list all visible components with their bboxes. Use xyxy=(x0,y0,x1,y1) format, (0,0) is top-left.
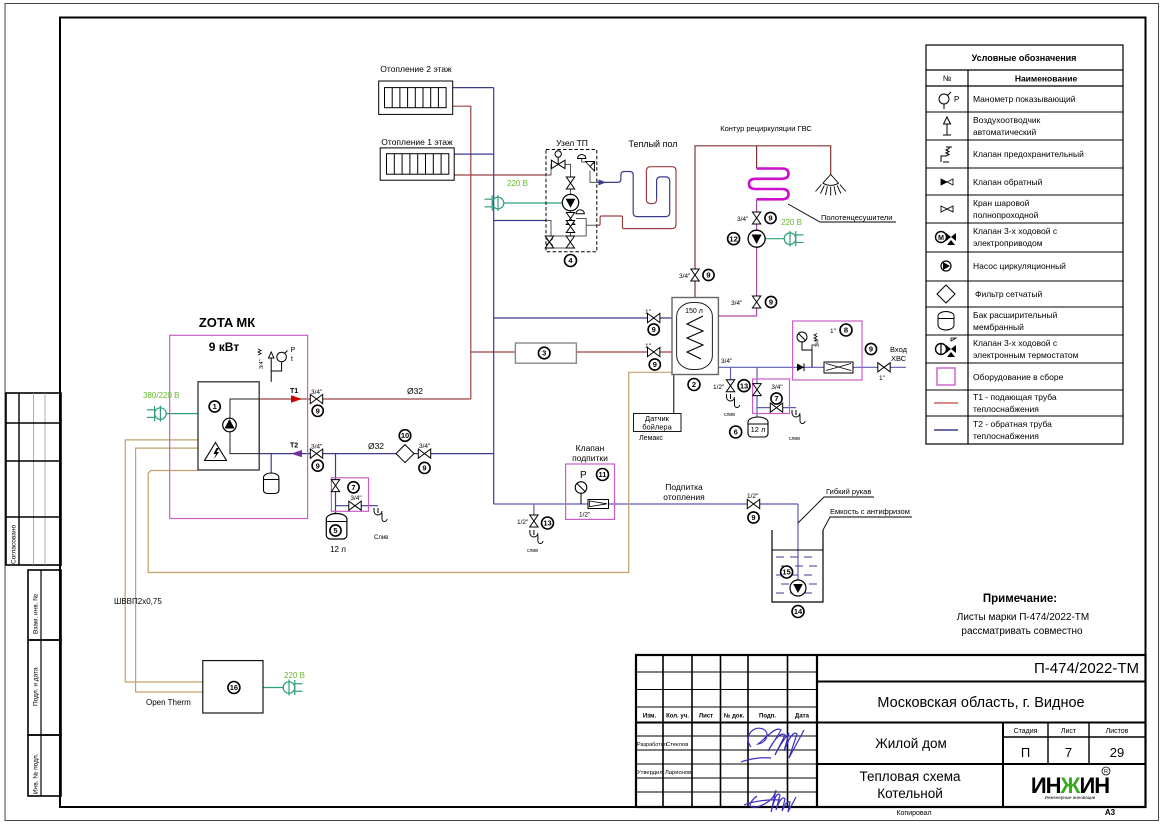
safety valve 3/4 b xyxy=(770,403,782,412)
wire podpitka make-up line xyxy=(494,503,798,505)
safety group 7 near boiler xyxy=(331,478,388,541)
3way valve below pump xyxy=(566,213,574,225)
svg-text:ZOTA МК: ZOTA МК xyxy=(199,315,255,330)
svg-text:15: 15 xyxy=(782,568,790,577)
svg-text:Воздухоотводчик: Воздухоотводчик xyxy=(973,115,1041,125)
svg-text:бойлера: бойлера xyxy=(642,423,672,432)
svg-text:Ø32: Ø32 xyxy=(407,386,423,396)
svg-text:Клапан: Клапан xyxy=(576,443,605,453)
svg-text:Подпитка: Подпитка xyxy=(665,482,703,492)
svg-text:14: 14 xyxy=(794,607,803,616)
towel rail label xyxy=(788,204,896,222)
inlet valve 9 xyxy=(865,343,876,354)
svg-text:Инженерные инновации: Инженерные инновации xyxy=(1045,795,1096,800)
svg-text:№ док.: № док. xyxy=(724,713,745,720)
svg-text:2: 2 xyxy=(692,380,696,389)
svg-text:мембранный: мембранный xyxy=(973,322,1024,332)
svg-text:Ø32: Ø32 xyxy=(368,441,384,451)
svg-text:Т2: Т2 xyxy=(290,443,298,450)
svg-text:автоматический: автоматический xyxy=(973,127,1036,137)
svg-text:Ларионов: Ларионов xyxy=(665,770,691,776)
valve in safety group 7b xyxy=(753,384,761,396)
svg-text:12 л: 12 л xyxy=(330,545,346,554)
svg-text:Кол. уч.: Кол. уч. xyxy=(666,714,689,720)
legend table Условные обозначения xyxy=(926,45,1123,444)
svg-text:П: П xyxy=(1021,745,1030,760)
svg-text:ХВС: ХВС xyxy=(891,354,907,363)
wire T1 boiler supply horizontal xyxy=(259,398,471,400)
svg-text:отопления: отопления xyxy=(663,492,705,502)
wire safety group2 branch xyxy=(756,367,758,417)
left stamp: Согласовано block xyxy=(6,393,61,565)
svg-text:6: 6 xyxy=(734,428,738,437)
legend sym: бак расширительный xyxy=(938,312,954,331)
svg-text:Изм.: Изм. xyxy=(643,714,657,720)
legend sym: манометр xyxy=(939,92,951,109)
svg-text:3/4": 3/4" xyxy=(311,444,323,451)
safety valve 3/4 xyxy=(349,501,361,510)
svg-text:Клапан 3-х ходовой с: Клапан 3-х ходовой с xyxy=(973,226,1058,236)
svg-text:Бак расширительный: Бак расширительный xyxy=(973,310,1058,320)
boiler inner unit xyxy=(198,382,259,470)
svg-text:Вход: Вход xyxy=(890,345,908,354)
flexible hose label xyxy=(798,497,874,523)
svg-text:Подп.: Подп. xyxy=(759,714,776,720)
svg-text:Клапан предохранительный: Клапан предохранительный xyxy=(973,149,1084,159)
svg-text:7: 7 xyxy=(774,394,778,403)
svg-text:Листов: Листов xyxy=(1106,728,1129,735)
pump 15 in tank xyxy=(790,580,806,596)
svg-text:1": 1" xyxy=(830,328,837,335)
svg-text:11: 11 xyxy=(599,470,607,479)
svg-text:Инв. № подл.: Инв. № подл. xyxy=(33,753,40,794)
wire power boiler xyxy=(166,413,198,415)
drain valve 13b xyxy=(530,515,538,527)
svg-text:1: 1 xyxy=(213,402,217,411)
wire power OpenTherm xyxy=(263,687,283,689)
wire floor coil blue xyxy=(597,172,670,217)
svg-text:220 В: 220 В xyxy=(284,671,305,680)
indirect tank 150l xyxy=(672,298,718,391)
wire radiator1 return xyxy=(454,153,493,155)
svg-text:9: 9 xyxy=(316,461,320,470)
svg-text:слив: слив xyxy=(724,412,735,418)
svg-text:5: 5 xyxy=(333,526,337,535)
wire TP unit return xyxy=(494,220,546,222)
svg-text:Лист: Лист xyxy=(699,714,713,720)
svg-text:9: 9 xyxy=(751,513,755,522)
svg-text:Теплый пол: Теплый пол xyxy=(628,139,677,149)
svg-text:слив: слив xyxy=(527,548,538,554)
svg-text:7: 7 xyxy=(351,483,355,492)
legend sym: кран шаровой xyxy=(941,206,953,212)
INZHIN logo xyxy=(1031,767,1110,800)
svg-text:9: 9 xyxy=(653,360,657,369)
wire T1 riser vertical xyxy=(453,106,471,399)
svg-text:Лемакс: Лемакс xyxy=(639,435,663,442)
manometer xyxy=(797,332,807,342)
wire radiator2 return xyxy=(453,87,494,89)
svg-text:Дата: Дата xyxy=(795,714,810,720)
svg-text:9: 9 xyxy=(768,214,772,223)
svg-text:Оборудование в сборе: Оборудование в сборе xyxy=(973,372,1064,382)
svg-text:рассматривать совместно: рассматривать совместно xyxy=(961,626,1083,637)
expansion tank 12l boiler xyxy=(326,514,347,555)
boiler sensor label xyxy=(634,414,682,443)
svg-text:12: 12 xyxy=(729,234,737,243)
svg-text:Тепловая схема: Тепловая схема xyxy=(859,769,961,784)
svg-text:Т2 - обратная труба: Т2 - обратная труба xyxy=(973,419,1052,429)
svg-text:Разработал: Разработал xyxy=(637,742,667,748)
legend sym: клапан 3-х ходовой с электроприводом xyxy=(936,232,957,246)
svg-text:3/4": 3/4" xyxy=(815,338,821,347)
svg-text:9 кВт: 9 кВт xyxy=(209,340,240,354)
svg-text:3/4": 3/4" xyxy=(259,359,265,369)
svg-text:Утвердил: Утвердил xyxy=(637,770,663,776)
antifreeze tank xyxy=(772,530,823,618)
node 7b label xyxy=(771,393,782,404)
boiler ZOTA MK assembly box xyxy=(170,315,308,519)
svg-text:Подл. и дата: Подл. и дата xyxy=(33,667,40,706)
svg-text:3/4": 3/4" xyxy=(771,384,783,391)
svg-text:полнопроходной: полнопроходной xyxy=(973,210,1039,220)
svg-text:13: 13 xyxy=(740,381,748,390)
svg-text:3/4": 3/4" xyxy=(419,443,431,450)
svg-text:Р: Р xyxy=(954,95,959,104)
svg-text:1/2": 1/2" xyxy=(713,384,725,391)
node 15 label xyxy=(781,566,793,578)
left table grid xyxy=(636,671,817,673)
svg-text:Р: Р xyxy=(580,470,587,481)
svg-text:220 В: 220 В xyxy=(507,179,528,188)
wire safety group1 drain out xyxy=(336,505,379,507)
svg-text:Согласовано: Согласовано xyxy=(11,525,18,564)
svg-text:9: 9 xyxy=(316,407,320,416)
svg-text:подпитки: подпитки xyxy=(572,453,608,463)
svg-text:Узел ТП: Узел ТП xyxy=(556,138,588,148)
svg-text:Т1 - подающая труба: Т1 - подающая труба xyxy=(973,392,1057,402)
svg-text:R: R xyxy=(1104,769,1108,775)
svg-text:Гибкий рукав: Гибкий рукав xyxy=(826,487,871,496)
svg-text:3/4": 3/4" xyxy=(721,358,733,365)
wire HVS cold water main xyxy=(718,366,906,368)
svg-text:Московская область, г. Видное: Московская область, г. Видное xyxy=(877,695,1084,711)
corner valve top right xyxy=(586,162,595,172)
recirc pump 12 xyxy=(728,233,740,245)
svg-text:3/4": 3/4" xyxy=(679,273,691,280)
thermo head xyxy=(576,210,584,214)
legend sym: фильтр xyxy=(937,285,955,303)
check valve xyxy=(797,364,804,372)
legend sym: Т1 line xyxy=(934,402,958,404)
svg-text:P: P xyxy=(291,347,296,354)
svg-text:электроприводом: электроприводом xyxy=(973,238,1043,248)
svg-text:Контур рециркуляции ГВС: Контур рециркуляции ГВС xyxy=(720,124,812,133)
svg-text:3: 3 xyxy=(542,349,546,358)
legend sym: Т2 line xyxy=(934,429,958,431)
wire radiator1 supply / TP unit feed xyxy=(454,174,546,176)
svg-text:Стеклов: Стеклов xyxy=(666,742,688,748)
wire tank cold feed upper xyxy=(494,317,672,319)
svg-text:теплоснабжения: теплоснабжения xyxy=(973,404,1039,414)
wire OpenTherm cable B xyxy=(136,448,203,692)
svg-text:1/2": 1/2" xyxy=(517,519,529,526)
svg-text:Емкость с антифризом: Емкость с антифризом xyxy=(830,507,910,516)
svg-text:Манометр показывающий: Манометр показывающий xyxy=(973,94,1076,104)
svg-text:А3: А3 xyxy=(1105,808,1116,817)
wire power TP pump xyxy=(504,202,562,204)
wire boiler sensor cable xyxy=(148,372,674,572)
svg-text:Копировал: Копировал xyxy=(896,810,931,817)
right part xyxy=(817,681,1146,683)
wire indirect tank supply branch xyxy=(471,351,516,353)
svg-text:Примечание:: Примечание: xyxy=(983,593,1057,605)
pressure reducer xyxy=(824,362,853,373)
svg-text:Взам. инв. №: Взам. инв. № xyxy=(33,594,40,634)
wire T2 boiler return xyxy=(259,453,494,455)
legend sym: насос xyxy=(941,261,951,271)
arrow into floor coil xyxy=(599,179,607,185)
svg-text:Условные обозначения: Условные обозначения xyxy=(972,53,1077,63)
valve on riser xyxy=(566,177,574,189)
wire sensor drop black xyxy=(673,372,675,413)
make-up valve group 11 xyxy=(566,443,615,519)
svg-text:Отопление 2 этаж: Отопление 2 этаж xyxy=(380,64,452,74)
svg-text:1/2": 1/2" xyxy=(579,512,591,519)
legend sym: клапан предохранительный xyxy=(941,147,952,163)
3-way valve with motor top-left xyxy=(551,160,565,168)
legend sym: клапан 3-х ходовой с термостатом xyxy=(936,338,957,357)
svg-text:13: 13 xyxy=(543,519,551,528)
wire podpitka into antifreeze tank xyxy=(797,504,799,581)
air cap top right xyxy=(578,154,586,158)
svg-text:8: 8 xyxy=(844,326,848,335)
radiator floor1 xyxy=(380,137,454,180)
svg-text:Т1: Т1 xyxy=(290,388,298,395)
mini safety valve xyxy=(812,334,817,351)
drain symbol слив b xyxy=(792,410,805,424)
pump inside boiler xyxy=(223,418,237,432)
antifreeze label xyxy=(823,517,912,530)
svg-text:9: 9 xyxy=(422,464,426,473)
OpenTherm controller 16 xyxy=(114,597,305,713)
svg-text:380/220 В: 380/220 В xyxy=(143,391,179,400)
svg-text:ШВВП2х0,75: ШВВП2х0,75 xyxy=(114,597,162,606)
svg-text:№: № xyxy=(943,74,952,83)
svg-text:Наименование: Наименование xyxy=(1015,74,1078,84)
svg-text:29: 29 xyxy=(1110,745,1124,760)
svg-text:Отопление 1 этаж: Отопление 1 этаж xyxy=(381,137,453,147)
signature xyxy=(741,728,804,762)
left stamp: Инв. № подл. xyxy=(28,735,61,796)
svg-text:1/2": 1/2" xyxy=(747,493,759,500)
expansion vessel under boiler xyxy=(270,454,272,474)
svg-text:Клапан 3-х ходовой с: Клапан 3-х ходовой с xyxy=(973,338,1058,348)
svg-text:Полотенцесушители: Полотенцесушители xyxy=(821,213,892,222)
svg-text:Насос циркуляционный: Насос циркуляционный xyxy=(973,261,1066,271)
svg-text:3/4": 3/4" xyxy=(737,216,749,223)
legend sym: воздухоотводчик xyxy=(943,117,951,135)
svg-text:Клапан обратный: Клапан обратный xyxy=(973,177,1043,187)
left stamp: Взам. инв. № xyxy=(28,570,61,640)
svg-text:16: 16 xyxy=(230,683,238,692)
svg-text:220 В: 220 В xyxy=(781,218,802,227)
component 3 heat exchanger xyxy=(515,343,576,363)
node 1 label xyxy=(209,401,220,412)
TP pump xyxy=(562,194,578,210)
svg-text:Слив: Слив xyxy=(374,535,388,541)
shower symbol xyxy=(816,175,846,196)
svg-text:М: М xyxy=(938,235,944,242)
svg-text:теплоснабжения: теплоснабжения xyxy=(973,431,1039,441)
wire floor coil red xyxy=(597,167,676,229)
title block xyxy=(636,655,1146,817)
TP unit узел ТП xyxy=(545,138,597,267)
wire OpenTherm cable A xyxy=(125,440,203,682)
boiler safety group on top xyxy=(258,347,296,382)
svg-text:Кран шаровой: Кран шаровой xyxy=(973,198,1030,208)
svg-text:П-474/2022-ТМ: П-474/2022-ТМ xyxy=(1034,660,1139,677)
wire podpitka drain branch xyxy=(533,504,535,516)
note Примечание xyxy=(957,593,1089,637)
svg-text:Open Therm: Open Therm xyxy=(146,698,191,707)
inlet ball valve 1" xyxy=(878,363,890,372)
wire comp3 to tank supply xyxy=(576,351,672,353)
svg-text:10: 10 xyxy=(401,431,409,440)
wire power recirc pump xyxy=(765,238,784,240)
svg-text:7: 7 xyxy=(1065,745,1072,760)
safety group 7 at tank xyxy=(753,379,805,442)
wire GVS recirculation top xyxy=(695,146,831,298)
node 7 label xyxy=(348,482,359,493)
radiator floor2 xyxy=(379,64,453,114)
svg-text:Листы марки П-474/2022-ТМ: Листы марки П-474/2022-ТМ xyxy=(957,612,1089,623)
svg-text:12 л: 12 л xyxy=(751,425,766,434)
expansion tank 12l N6 xyxy=(730,417,768,438)
svg-text:электронным термостатом: электронным термостатом xyxy=(973,350,1079,360)
drain symbol Слив xyxy=(374,508,387,522)
svg-text:9: 9 xyxy=(769,298,773,307)
svg-text:9: 9 xyxy=(706,271,710,280)
svg-text:Жилой дом: Жилой дом xyxy=(875,736,947,751)
svg-text:150 л: 150 л xyxy=(685,308,703,315)
legend sym: оборудование в сборе xyxy=(937,368,955,385)
left stamp: Подл. и дата xyxy=(28,640,61,735)
svg-text:Котельной: Котельной xyxy=(877,786,943,801)
wire drain branch at tank xyxy=(730,367,732,380)
legend sym: клапан обратный xyxy=(941,179,953,185)
svg-text:9: 9 xyxy=(869,345,873,354)
wire return riser vertical xyxy=(493,88,495,504)
svg-text:Фильтр сетчатый: Фильтр сетчатый xyxy=(975,289,1042,299)
wire expansion branch xyxy=(335,454,337,514)
hazard triangle xyxy=(205,443,227,461)
svg-text:3/4": 3/4" xyxy=(350,495,362,502)
wire towel return purple xyxy=(718,199,756,316)
svg-text:t: t xyxy=(291,356,293,363)
svg-text:3/4": 3/4" xyxy=(731,300,743,307)
wire GVS coil stub xyxy=(756,146,758,169)
valve in safety group 7 xyxy=(331,480,339,492)
svg-text:Лист: Лист xyxy=(1061,728,1077,735)
svg-text:9: 9 xyxy=(652,325,656,334)
drain symbol слив d xyxy=(727,394,740,408)
wire safety group2 out xyxy=(757,407,796,409)
drain symbol слив c xyxy=(530,530,543,544)
filter 10 on T2 xyxy=(399,430,411,442)
svg-text:Стадия: Стадия xyxy=(1014,728,1038,735)
svg-text:слив: слив xyxy=(789,436,800,442)
wire towel coil bright magenta xyxy=(749,169,789,200)
bottom valves xyxy=(545,236,553,248)
svg-text:1": 1" xyxy=(879,375,886,382)
HVS inlet group 8 xyxy=(793,321,862,380)
